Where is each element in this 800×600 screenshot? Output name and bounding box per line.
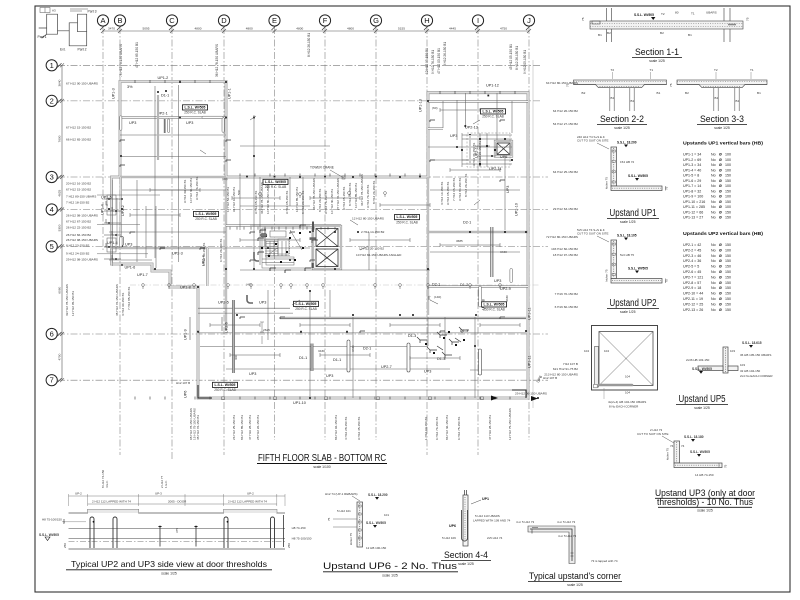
svg-text:250 R.C. SLAB: 250 R.C. SLAB <box>482 115 504 119</box>
svg-text:3 H12 90-150 B1: 3 H12 90-150 B1 <box>121 292 125 316</box>
interior wall below left tower <box>225 177 227 330</box>
section 4-4 detail <box>462 490 469 546</box>
svg-text:7: 7 <box>50 376 54 385</box>
grid column bubble J <box>523 15 534 30</box>
svg-text:104: 104 <box>625 391 630 395</box>
svg-text:No: No <box>711 174 716 178</box>
svg-text:75: 75 <box>669 83 673 87</box>
svg-text:No: No <box>711 153 716 157</box>
svg-text:100: 100 <box>725 195 731 199</box>
svg-text:2625: 2625 <box>263 328 270 332</box>
grid I door capsule <box>510 269 513 283</box>
interior wall UP2-3 <box>110 247 208 249</box>
svg-text:3640: 3640 <box>58 79 62 86</box>
svg-text:L.S.L. W#505: L.S.L. W#505 <box>483 109 504 113</box>
plan interior rebar call-outs horizontal <box>222 106 507 353</box>
svg-text:No: No <box>711 308 716 312</box>
left dimension values <box>58 79 62 360</box>
svg-text:B2: B2 <box>660 31 664 35</box>
svg-text:29 H12 06-150 UBARS: 29 H12 06-150 UBARS <box>515 392 547 396</box>
upstand UP3 labels <box>637 428 728 477</box>
svg-text:Upstand UP6 - 2 No. Thus: Upstand UP6 - 2 No. Thus <box>323 561 458 571</box>
svg-text:47 H16 28-150 B1: 47 H16 28-150 B1 <box>488 415 492 440</box>
svg-text:S.S.L. 18.200: S.S.L. 18.200 <box>368 493 388 497</box>
slab level label L.S.L. W#505 <box>481 109 506 119</box>
svg-text:UP-2: UP-2 <box>75 492 82 496</box>
svg-text:UP2-12 = 25: UP2-12 = 25 <box>683 302 703 306</box>
svg-text:154 HB 72: 154 HB 72 <box>620 160 635 164</box>
D1-3 annotation cluster <box>417 327 469 358</box>
grid row 1 line <box>58 64 540 66</box>
svg-text:No: No <box>711 195 716 199</box>
main title FIFTH FLOOR SLAB - BOTTOM RC <box>257 452 387 469</box>
svg-text:(40): (40) <box>222 177 228 181</box>
svg-text:10 H12 85-150 B1: 10 H12 85-150 B1 <box>354 183 358 208</box>
interior wall stair top <box>226 224 341 226</box>
svg-text:45 H12 05-150 B1: 45 H12 05-150 B1 <box>509 44 513 70</box>
svg-text:4800: 4800 <box>296 27 303 31</box>
stair cluster dots <box>261 232 304 263</box>
svg-text:150: 150 <box>725 254 731 258</box>
grid row 4 line <box>58 209 548 211</box>
svg-text:100: 100 <box>725 205 731 209</box>
svg-text:scale 1/25: scale 1/25 <box>161 572 177 576</box>
svg-text:S.S.L. 18.615: S.S.L. 18.615 <box>742 341 762 345</box>
stair bottom dark stub <box>312 263 314 268</box>
left margin rebar call-outs <box>66 82 98 262</box>
svg-text:CUT TO SUIT ON SITE: CUT TO SUIT ON SITE <box>637 432 668 436</box>
grid row 5 line <box>58 245 548 247</box>
svg-text:Ø: Ø <box>719 281 722 285</box>
door threshold loop dots <box>93 521 229 528</box>
svg-text:H: H <box>424 16 429 25</box>
svg-text:4625: 4625 <box>58 190 62 197</box>
section 1-1 wall stub right <box>724 8 736 42</box>
grid column G line <box>375 27 377 440</box>
svg-text:UP1-8 = 32: UP1-8 = 32 <box>683 189 701 193</box>
svg-text:4800: 4800 <box>195 27 202 31</box>
grid column bubble B <box>114 15 125 30</box>
svg-text:8 H12 23-150 B2: 8 H12 23-150 B2 <box>66 244 90 248</box>
svg-text:UP3: UP3 <box>424 370 431 374</box>
grid column bubble C <box>166 15 177 30</box>
svg-text:75: 75 <box>665 186 669 190</box>
svg-text:S.S.L. 18.105: S.S.L. 18.105 <box>617 234 637 238</box>
grid row bubble 2 <box>46 95 61 106</box>
svg-text:CUT TO SUIT ON SITE: CUT TO SUIT ON SITE <box>577 232 608 236</box>
svg-text:250 R.C. SLAB: 250 R.C. SLAB <box>184 111 206 115</box>
svg-text:18 H12 97-150 B2: 18 H12 97-150 B2 <box>553 253 578 257</box>
svg-text:100: 100 <box>725 168 731 172</box>
svg-text:UP2-11: UP2-11 <box>489 167 502 171</box>
interior wall UP2-1 <box>120 116 226 118</box>
courtyard edge tick marks <box>240 174 420 177</box>
svg-text:7 H16 70-150 B2: 7 H16 70-150 B2 <box>555 292 579 296</box>
grid row bubble 5 <box>46 241 61 252</box>
upstand UP2 leader note <box>577 228 609 242</box>
svg-text:32 HB 104-150: 32 HB 104-150 <box>740 369 761 373</box>
svg-text:78 H12 78-150 UBARS: 78 H12 78-150 UBARS <box>119 44 123 77</box>
section 1-1 title <box>632 47 682 63</box>
svg-text:scale 1/25: scale 1/25 <box>620 310 636 314</box>
svg-text:Upstand UP2: Upstand UP2 <box>610 298 657 309</box>
svg-text:36 H12 78-150 UBARS: 36 H12 78-150 UBARS <box>215 44 219 77</box>
svg-text:kicker 75: kicker 75 <box>605 177 609 189</box>
svg-text:No: No <box>711 254 716 258</box>
section 2-2 title <box>597 114 647 130</box>
grid row bubble 6 <box>46 328 61 339</box>
svg-text:150: 150 <box>725 265 731 269</box>
svg-text:75: 75 <box>665 279 669 283</box>
section 2-2 slab <box>574 80 667 88</box>
section 4-4 title <box>441 550 491 566</box>
svg-text:T2: T2 <box>661 12 665 16</box>
grid column C line <box>171 27 173 460</box>
svg-text:9 H12 80-150 B1: 9 H12 80-150 B1 <box>458 177 462 201</box>
interior wall stubs <box>158 95 312 373</box>
upstand UP5 plan dims <box>584 349 646 409</box>
svg-text:600: 600 <box>62 519 66 524</box>
svg-text:150: 150 <box>725 270 731 274</box>
svg-text:250 R.C. SLAB: 250 R.C. SLAB <box>265 185 287 189</box>
svg-text:Section 2-2: Section 2-2 <box>600 114 644 124</box>
svg-text:12 HB 100-150: 12 HB 100-150 <box>366 546 387 550</box>
bottom margin rebar call-outs <box>189 408 512 440</box>
svg-text:9 H12 76-150 B1: 9 H12 76-150 B1 <box>195 176 199 200</box>
stair flight dense lines <box>262 230 302 263</box>
svg-text:Ø: Ø <box>719 297 722 301</box>
svg-text:29 H12 08-150 UBARS: 29 H12 08-150 UBARS <box>66 258 98 262</box>
svg-text:UP1-3: UP1-3 <box>112 88 116 99</box>
svg-text:74: 74 <box>681 444 685 448</box>
svg-text:9 H12 05-150 B1: 9 H12 05-150 B1 <box>254 190 258 214</box>
svg-text:9 H12 76-150 B1: 9 H12 76-150 B1 <box>366 184 370 208</box>
svg-text:5095: 5095 <box>143 27 150 31</box>
svg-text:UP1-4 = 40: UP1-4 = 40 <box>683 168 701 172</box>
slab level label L.S.L. W#505 <box>395 215 420 225</box>
mid right double vertical bars <box>491 227 493 277</box>
svg-text:UP1-9 = 100: UP1-9 = 100 <box>683 195 703 199</box>
svg-text:UP6: UP6 <box>184 391 188 398</box>
svg-text:10 H12 30-150 B1: 10 H12 30-150 B1 <box>330 189 334 214</box>
interior wall row3 left <box>120 176 226 178</box>
stair top dark stub <box>312 222 314 233</box>
slab level label L.S.L. W#505 <box>263 179 288 189</box>
svg-text:Ø: Ø <box>719 286 722 290</box>
svg-text:UP2-4 = 36: UP2-4 = 36 <box>683 259 701 263</box>
svg-text:7 H12 05-150 B1: 7 H12 05-150 B1 <box>452 177 456 201</box>
svg-text:B1: B1 <box>757 91 761 95</box>
lower band wall stub UP1-9 <box>189 317 191 340</box>
svg-text:kicker 75: kicker 75 <box>666 448 670 460</box>
grid column J line <box>528 27 530 440</box>
svg-text:scale 1/25: scale 1/25 <box>382 574 398 578</box>
svg-text:3685: 3685 <box>456 239 463 243</box>
svg-text:2005 - DOOR: 2005 - DOOR <box>168 500 187 504</box>
svg-text:UP3: UP3 <box>494 279 501 283</box>
svg-text:8 H12 26-150 B1: 8 H12 26-150 B1 <box>372 180 376 204</box>
svg-text:T2: T2 <box>611 68 615 72</box>
svg-text:5: 5 <box>50 242 54 251</box>
svg-text:UP1-5 = 8: UP1-5 = 8 <box>683 174 699 178</box>
typical upstand corner labels <box>516 520 618 563</box>
svg-text:Ø: Ø <box>719 216 722 220</box>
svg-text:UP1-8: UP1-8 <box>180 286 191 290</box>
svg-text:No: No <box>711 163 716 167</box>
interior wall UP2-13 stub <box>428 127 443 129</box>
grid column bubble D <box>218 15 229 30</box>
section 1-1 wall stub left <box>607 8 612 42</box>
wall tick marks <box>135 80 515 400</box>
svg-text:Ø: Ø <box>719 292 722 296</box>
tower interior door jambs <box>120 116 225 133</box>
svg-text:5 H12 109: 5 H12 109 <box>442 536 456 540</box>
svg-text:B1: B1 <box>657 91 661 95</box>
svg-text:8 H12 26-150 B1: 8 H12 26-150 B1 <box>515 46 519 70</box>
svg-text:45 H12 76-150 UBARS: 45 H12 76-150 UBARS <box>115 284 119 316</box>
svg-text:T1: T1 <box>691 12 695 16</box>
svg-text:No: No <box>711 211 716 215</box>
svg-text:39 H12 78-150 UBARS: 39 H12 78-150 UBARS <box>65 284 69 316</box>
svg-text:7 H12 18-150 B2: 7 H12 18-150 B2 <box>66 201 90 205</box>
svg-text:UP2-10: UP2-10 <box>515 203 519 216</box>
svg-text:UP1-10: UP1-10 <box>293 401 306 405</box>
svg-text:UP6: UP6 <box>449 524 456 528</box>
svg-text:36 H12 78-150 UBARS: 36 H12 78-150 UBARS <box>312 178 316 210</box>
svg-text:scale 1/25: scale 1/25 <box>649 59 665 63</box>
svg-text:8 H12 26-150 B1: 8 H12 26-150 B1 <box>464 173 468 197</box>
svg-text:H8 74-150: H8 74-150 <box>292 526 306 530</box>
svg-text:621 H12 91-75 B2: 621 H12 91-75 B2 <box>553 367 578 371</box>
svg-text:4x(2+4) HB 104-150 UBARS: 4x(2+4) HB 104-150 UBARS <box>608 400 646 404</box>
svg-text:UP1-1: UP1-1 <box>228 88 232 99</box>
svg-text:UP1-2: UP1-2 <box>158 76 169 80</box>
svg-text:J: J <box>527 16 531 25</box>
svg-text:UBARS: UBARS <box>706 11 717 15</box>
upstand UP2 detail <box>611 240 662 283</box>
svg-text:D2-1: D2-1 <box>363 347 371 351</box>
svg-text:7 H12 85-150 B1: 7 H12 85-150 B1 <box>127 286 131 310</box>
svg-text:80: 80 <box>675 11 679 15</box>
svg-text:12 H12 75-150 UBARS: 12 H12 75-150 UBARS <box>508 408 512 440</box>
svg-text:26 H12 22-150 B2: 26 H12 22-150 B2 <box>66 226 91 230</box>
typical upstand corner title <box>528 571 622 587</box>
svg-text:UP1-12: UP1-12 <box>486 84 499 88</box>
top dimension line <box>101 29 531 33</box>
svg-text:2x36 HB 103-150: 2x36 HB 103-150 <box>686 358 710 362</box>
svg-text:73 is lapped with 74: 73 is lapped with 74 <box>591 559 618 563</box>
svg-text:3: 3 <box>50 173 54 182</box>
svg-text:8 No EACH CORNER: 8 No EACH CORNER <box>609 405 639 409</box>
svg-text:2 H12 112 LAPPED WITH 74: 2 H12 112 LAPPED WITH 74 <box>228 500 267 504</box>
door threshold title <box>66 559 272 576</box>
right tower UP2-13 vertical bar <box>469 135 471 165</box>
svg-text:D1-3: D1-3 <box>408 334 416 338</box>
svg-text:Ø: Ø <box>719 270 722 274</box>
svg-text:UP3: UP3 <box>326 374 333 378</box>
svg-text:Section 4-4: Section 4-4 <box>444 550 488 560</box>
svg-text:UP1-6 = 29: UP1-6 = 29 <box>683 179 701 183</box>
svg-text:500: 500 <box>237 190 241 195</box>
svg-text:F: F <box>323 16 328 25</box>
svg-text:Ø: Ø <box>719 179 722 183</box>
svg-text:UP2-6 = 45: UP2-6 = 45 <box>683 270 701 274</box>
svg-text:No: No <box>711 243 716 247</box>
svg-text:No: No <box>711 302 716 306</box>
svg-text:Part 2: Part 2 <box>78 48 87 52</box>
upstand UP5 title <box>676 394 728 410</box>
svg-text:Ø: Ø <box>719 158 722 162</box>
svg-text:No: No <box>711 158 716 162</box>
upstand UP1 leader note <box>577 135 609 149</box>
svg-text:scale 1/25: scale 1/25 <box>567 583 583 587</box>
svg-text:47 H12 85-150 B1: 47 H12 85-150 B1 <box>135 42 139 68</box>
svg-text:UP1-3 = 34: UP1-3 = 34 <box>683 163 701 167</box>
svg-text:Ø: Ø <box>719 275 722 279</box>
svg-text:No: No <box>711 189 716 193</box>
right tower dashed opening <box>467 133 510 167</box>
svg-text:D: D <box>221 16 227 25</box>
svg-text:103: 103 <box>730 349 735 353</box>
lower band corner hooks <box>198 385 526 398</box>
upstand UP6 detail <box>333 502 363 547</box>
svg-text:5x3 HB 75: 5x3 HB 75 <box>620 253 634 257</box>
svg-text:UP2-3: UP2-3 <box>172 252 183 256</box>
right tower UP5 cluster dots <box>461 134 513 165</box>
svg-text:D2-1: D2-1 <box>432 283 440 287</box>
svg-text:B1: B1 <box>736 99 740 103</box>
svg-text:104: 104 <box>584 349 589 353</box>
svg-text:12 H12 05-150 B1: 12 H12 05-150 B1 <box>71 291 75 316</box>
svg-text:67 H12 67-150 B2: 67 H12 67-150 B2 <box>66 220 91 224</box>
svg-text:A: A <box>100 16 105 25</box>
svg-text:3 H12 10-150 B1: 3 H12 10-150 B1 <box>440 181 444 205</box>
svg-text:Ø: Ø <box>719 308 722 312</box>
svg-text:B2: B2 <box>607 31 611 35</box>
svg-text:UP3: UP3 <box>259 301 266 305</box>
left margin lower vertical call-outs <box>65 284 131 316</box>
tower door jamb bar <box>164 119 166 133</box>
svg-text:4 or 5 H12 73: 4 or 5 H12 73 <box>557 520 576 524</box>
svg-text:C: C <box>169 16 175 25</box>
svg-text:2: 2 <box>50 96 54 105</box>
svg-text:100: 100 <box>725 248 731 252</box>
grid column H line <box>426 27 428 455</box>
svg-text:UP2-9 = 18: UP2-9 = 18 <box>683 286 701 290</box>
svg-text:UP1-11: UP1-11 <box>528 307 532 320</box>
interior wall right tower row2 <box>428 100 528 102</box>
svg-text:kicker 75: kicker 75 <box>349 533 353 545</box>
svg-text:scale 1/25: scale 1/25 <box>620 220 636 224</box>
svg-text:150: 150 <box>725 308 731 312</box>
svg-text:7690: 7690 <box>58 135 62 142</box>
slab level label L.S.L. W#505 <box>482 302 507 312</box>
svg-text:S.S.L. W#505: S.S.L. W#505 <box>690 450 710 454</box>
svg-text:Upstands UP1 vertical bars (HB: Upstands UP1 vertical bars (HB) <box>683 141 764 146</box>
right tower UP5 cluster <box>462 133 512 167</box>
svg-text:1 E.F.: 1 E.F. <box>164 480 168 488</box>
svg-text:UP1-13: UP1-13 <box>419 99 423 112</box>
svg-text:UP1-13 = 27: UP1-13 = 27 <box>683 216 703 220</box>
svg-text:10 H12 84-150 UBARS ANGLED: 10 H12 84-150 UBARS ANGLED <box>356 253 402 257</box>
svg-text:S.S.L. W#505: S.S.L. W#505 <box>39 533 59 537</box>
section 1-1 rebar labels <box>581 11 750 38</box>
svg-text:20 H12 16-150 B2: 20 H12 16-150 B2 <box>66 182 91 186</box>
stair door pill <box>261 234 267 237</box>
svg-text:No: No <box>711 292 716 296</box>
svg-text:Upstands UP2 vertical bars (HB: Upstands UP2 vertical bars (HB) <box>683 231 764 236</box>
svg-text:Ø: Ø <box>719 163 722 167</box>
svg-text:9 H12 05-150 B1: 9 H12 05-150 B1 <box>285 190 289 214</box>
top margin rebar call-outs <box>119 33 527 77</box>
interior wall right mid <box>428 285 528 287</box>
svg-text:150: 150 <box>725 216 731 220</box>
svg-text:UP2-5: UP2-5 <box>218 301 229 305</box>
plan upstand labels <box>101 76 544 405</box>
svg-text:UP1-10 = 216: UP1-10 = 216 <box>683 200 705 204</box>
interior wall below tower left edge <box>120 177 122 248</box>
svg-text:2 H12 14-150 B2: 2 H12 14-150 B2 <box>361 230 385 234</box>
section 1-1 level flag <box>634 13 655 20</box>
svg-text:Part 1: Part 1 <box>38 35 47 39</box>
stair hooks <box>258 225 318 273</box>
bottom edge arrow markers <box>491 396 538 402</box>
svg-text:250 R.C. SLAB: 250 R.C. SLAB <box>295 307 317 311</box>
svg-text:100: 100 <box>725 184 731 188</box>
svg-text:I: I <box>477 16 479 25</box>
svg-text:No: No <box>711 270 716 274</box>
svg-text:Ø: Ø <box>719 168 722 172</box>
svg-text:14 HB 74-150: 14 HB 74-150 <box>695 473 714 477</box>
top dimension values <box>108 27 507 31</box>
svg-text:64 H12 25-150 B2: 64 H12 25-150 B2 <box>553 170 578 174</box>
plan interior rebar lines <box>109 85 526 398</box>
grid row bubble 1 <box>46 60 61 71</box>
svg-text:6 H16 60-150 B2: 6 H16 60-150 B2 <box>555 305 579 309</box>
svg-text:(60): (60) <box>432 106 438 110</box>
svg-text:Ø: Ø <box>719 265 722 269</box>
UP2-8 door capsule <box>479 286 482 307</box>
svg-text:28 H12 26-150 B1: 28 H12 26-150 B1 <box>256 415 260 440</box>
svg-text:Ø: Ø <box>719 200 722 204</box>
svg-text:75: 75 <box>746 17 750 21</box>
upstand UP5 plan square <box>592 326 658 400</box>
svg-text:375: 375 <box>175 528 179 533</box>
svg-text:scale 1/25: scale 1/25 <box>697 509 713 513</box>
upstand UP3 detail <box>674 441 722 468</box>
svg-text:UP5: UP5 <box>500 155 507 159</box>
interior wall D2-1 <box>428 231 528 233</box>
svg-text:No: No <box>711 275 716 279</box>
svg-text:9 H12 76-150 B1: 9 H12 76-150 B1 <box>431 50 435 74</box>
svg-text:L.S.L. W#505: L.S.L. W#505 <box>185 105 206 109</box>
svg-text:86 H12 36-150 B1: 86 H12 36-150 B1 <box>445 415 449 440</box>
svg-text:Ø: Ø <box>719 211 722 215</box>
svg-text:4 or 5 H12 73: 4 or 5 H12 73 <box>558 534 577 538</box>
svg-text:Upstand UP1: Upstand UP1 <box>610 208 657 219</box>
svg-text:L.S.L. W#505: L.S.L. W#505 <box>215 383 236 387</box>
plan interior rebar call-outs vertical <box>183 141 509 360</box>
svg-text:UP1-12 = 66: UP1-12 = 66 <box>683 211 703 215</box>
svg-text:scale 1/100: scale 1/100 <box>313 465 330 469</box>
svg-text:9 H12 24-150 B2: 9 H12 24-150 B2 <box>66 252 90 256</box>
svg-text:UP1-7: UP1-7 <box>137 273 148 277</box>
svg-text:8 H12 26-150 B1: 8 H12 26-150 B1 <box>443 42 447 66</box>
svg-text:No: No <box>711 184 716 188</box>
svg-text:9 H12 05-150 B1: 9 H12 05-150 B1 <box>446 181 450 205</box>
door capsule col B <box>120 237 122 247</box>
svg-text:scale 1/25: scale 1/25 <box>714 126 730 130</box>
